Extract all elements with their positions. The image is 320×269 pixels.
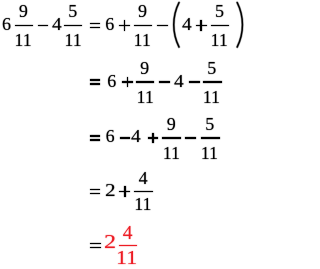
minus sign (line 3) (185, 137, 196, 139)
red fraction 4/11 denominator of answer (line 5) (116, 249, 137, 269)
fraction 4/11 bar (line 4) (134, 191, 153, 193)
plus sign (line 4) (119, 191, 130, 193)
fraction 9/11 numerator (line 3) (167, 115, 176, 133)
number 4 (line 1) (182, 15, 192, 33)
fraction 9/11 bar (line 2) (136, 81, 155, 83)
plus sign (line 2) (122, 81, 133, 83)
fraction 9/11 numerator (line 1) (138, 2, 147, 20)
red whole number 2 of answer (line 5) (104, 233, 116, 253)
fraction 9/11 denominator (line 1) (134, 31, 151, 49)
fraction 9/11 bar (line 3) (162, 137, 181, 139)
left parenthesis (line 1) (0, 0, 249, 269)
plus sign (line 1) (119, 25, 130, 27)
fraction 5/11 bar (line 1) (64, 25, 82, 27)
fraction 4/11 numerator (line 4) (139, 169, 148, 187)
fraction 9/11 numerator (line 1) (19, 2, 28, 20)
equals sign (line 2) (90, 79, 101, 81)
number 6 (line 1) (105, 15, 114, 33)
fraction 5/11 bar (line 2) (203, 81, 222, 83)
fraction 5/11 denominator (line 2) (203, 88, 220, 106)
fraction 5/11 denominator (line 1) (211, 31, 228, 49)
minus sign (line 1) (38, 25, 49, 27)
minus sign (line 1) (157, 25, 168, 27)
fraction 5/11 bar (line 1) (211, 25, 230, 27)
fraction 9/11 bar (line 1) (134, 25, 153, 27)
right parenthesis (line 1) (0, 0, 249, 269)
fraction 9/11 numerator (line 2) (140, 59, 149, 77)
fraction 5/11 numerator (line 1) (215, 2, 224, 20)
equals sign (line 5) (90, 243, 101, 245)
fraction 9/11 denominator (line 3) (163, 144, 180, 162)
number 4 (line 3) (131, 127, 141, 145)
minus sign (line 2) (159, 81, 170, 83)
fraction 4/11 denominator (line 4) (134, 195, 151, 213)
number 6 (line 2) (107, 72, 116, 90)
number 2 (line 4) (105, 181, 116, 199)
fraction 9/11 denominator (line 1) (14, 31, 31, 49)
equals sign (line 1) (90, 23, 101, 25)
plus sign (line 3) (148, 137, 159, 139)
fraction 9/11 denominator (line 2) (137, 88, 154, 106)
fraction 5/11 denominator (line 3) (201, 144, 218, 162)
number 6 (line 3) (106, 127, 115, 145)
fraction 9/11 bar (line 1) (15, 25, 33, 27)
equals sign (line 3) (90, 135, 101, 137)
number 4 (line 2) (174, 72, 184, 90)
number 6 (line 1) (2, 15, 11, 33)
red fraction 4/11 numerator of answer (line 5) (123, 224, 133, 244)
plus sign (line 1) (196, 25, 207, 27)
red fraction 4/11 bar of answer (line 5) (119, 245, 137, 247)
minus sign (line 3) (120, 137, 131, 139)
fraction 5/11 numerator (line 1) (68, 2, 77, 20)
fraction 5/11 numerator (line 2) (207, 59, 216, 77)
minus sign (line 2) (189, 81, 200, 83)
equals sign (line 4) (90, 189, 101, 191)
fraction 5/11 denominator (line 1) (64, 31, 81, 49)
fraction 5/11 numerator (line 3) (205, 115, 214, 133)
fraction 5/11 bar (line 3) (201, 137, 220, 139)
number 4 (line 1) (52, 15, 62, 33)
